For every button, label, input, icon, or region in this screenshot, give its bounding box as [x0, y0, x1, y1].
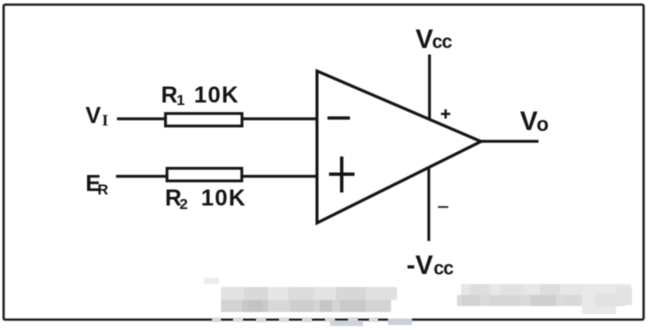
negative supply marker (minus)	[438, 206, 448, 208]
svg-text:o: o	[537, 114, 549, 136]
wire -Vcc supply	[427, 168, 430, 242]
label Vo	[520, 106, 549, 136]
svg-text:10K: 10K	[201, 185, 246, 211]
label R1 10K	[161, 82, 239, 110]
svg-text:I: I	[102, 112, 108, 129]
label Vcc	[416, 24, 453, 54]
resistor R1	[166, 114, 243, 127]
svg-text:R: R	[98, 182, 109, 199]
svg-text:cc: cc	[434, 258, 455, 279]
svg-text:V: V	[416, 24, 434, 54]
wire top input	[117, 117, 317, 120]
op-amp U1	[317, 71, 481, 223]
svg-text:V: V	[520, 106, 538, 136]
resistor R2	[167, 168, 242, 181]
svg-text:1: 1	[177, 92, 185, 109]
label -Vcc	[407, 250, 455, 280]
non-inverting input marker (plus)	[329, 157, 355, 193]
inverting input marker (minus)	[328, 116, 351, 119]
wire bottom input	[116, 175, 317, 178]
watermark mosaic cluster 2	[457, 284, 632, 314]
label VI	[86, 102, 109, 130]
label ER	[86, 170, 109, 199]
svg-text:cc: cc	[432, 32, 453, 53]
positive supply marker (plus)	[441, 109, 450, 118]
svg-text:2: 2	[180, 196, 188, 213]
svg-text:-V: -V	[407, 250, 434, 280]
wire output	[481, 140, 539, 143]
watermark mosaic cluster 1	[204, 278, 397, 312]
dashed overlay on bottom border (watermark over frame)	[212, 317, 412, 326]
svg-text:R: R	[161, 82, 178, 108]
svg-text:V: V	[86, 102, 102, 128]
svg-text:10K: 10K	[194, 82, 239, 108]
wire Vcc supply	[428, 55, 431, 120]
label R2 10K	[165, 185, 246, 214]
